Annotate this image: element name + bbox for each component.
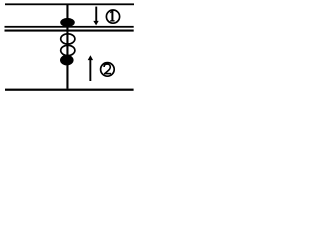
- arrow down shaft: [95, 7, 97, 22]
- arrow up shaft: [89, 60, 91, 82]
- bubble circle bottom (hollow): [61, 45, 75, 55]
- drop ellipse top (filled): [60, 18, 75, 27]
- partition double line lower: [5, 30, 134, 32]
- partition double line upper: [5, 26, 134, 28]
- drop ellipse bottom (filled): [60, 55, 74, 66]
- top boundary wall: [5, 3, 134, 5]
- bubble circle top (hollow): [61, 34, 75, 44]
- arrow up head: [88, 55, 93, 60]
- digit 1: [110, 10, 115, 21]
- label circle 1: [106, 10, 119, 23]
- label circle 2: [101, 63, 115, 77]
- bottom boundary wall: [5, 89, 134, 91]
- digit 2: [104, 64, 111, 74]
- arrow down head: [93, 21, 98, 26]
- vertical tube wire: [66, 5, 68, 89]
